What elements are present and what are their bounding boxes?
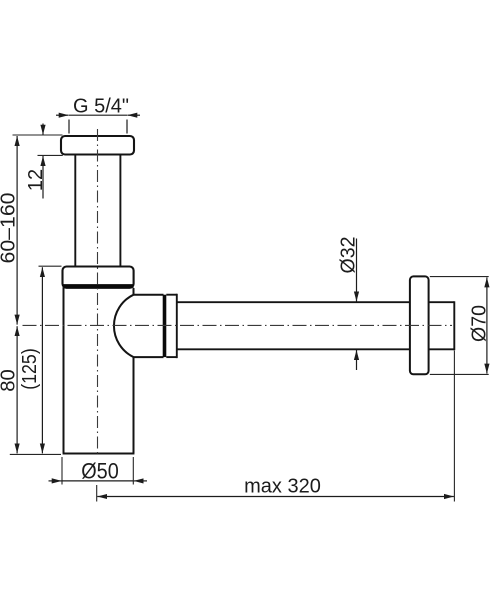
horizontal outlet pipe: [177, 302, 410, 349]
svg-text:12: 12: [25, 169, 47, 191]
dimension O50 (outside arrows): [49, 480, 148, 482]
svg-text:Ø32: Ø32: [338, 237, 360, 274]
svg-text:Ø70: Ø70: [469, 305, 491, 342]
dimension G 5/4 (outside arrows): [56, 115, 140, 133]
dimension (125): [41, 267, 43, 453]
dimension max 320: [97, 496, 454, 498]
wall-side pipe stub: [429, 301, 455, 350]
thick ball seam line: [163, 295, 167, 357]
svg-text:80: 80: [0, 369, 20, 392]
top thread flange: [61, 136, 134, 155]
dimension 80: [16, 326, 18, 453]
extension line flange top: [13, 134, 63, 136]
extension lines rosette: [430, 277, 489, 375]
svg-text:G 5/4": G 5/4": [73, 96, 129, 118]
dimension 60-160: [16, 136, 18, 325]
extension line cup bottom: [10, 453, 61, 455]
extension line nut top: [39, 265, 62, 267]
vertical centerline: [97, 129, 99, 455]
svg-text:(125): (125): [19, 348, 41, 390]
extension lines O50: [62, 457, 133, 485]
cup body: [63, 288, 135, 454]
ball joint dome: [114, 295, 164, 357]
vertical adjustable pipe: [75, 155, 120, 267]
compression ring: [166, 294, 177, 358]
wall rosette flange: [410, 276, 429, 374]
extension line centerline bottom: [96, 485, 98, 502]
dimension 12 (outside arrows): [42, 124, 44, 199]
svg-text:60–160: 60–160: [0, 193, 20, 264]
extension line stub right: [453, 351, 455, 502]
extension line flange bottom: [38, 154, 63, 156]
horizontal centerline: [23, 324, 453, 326]
svg-text:Ø50: Ø50: [81, 458, 119, 483]
thick seam line under nut: [63, 284, 134, 288]
union nut on body top: [63, 267, 134, 288]
svg-text:max 320: max 320: [244, 476, 321, 498]
dimension O32: [356, 239, 358, 371]
dimension O70: [486, 277, 488, 373]
